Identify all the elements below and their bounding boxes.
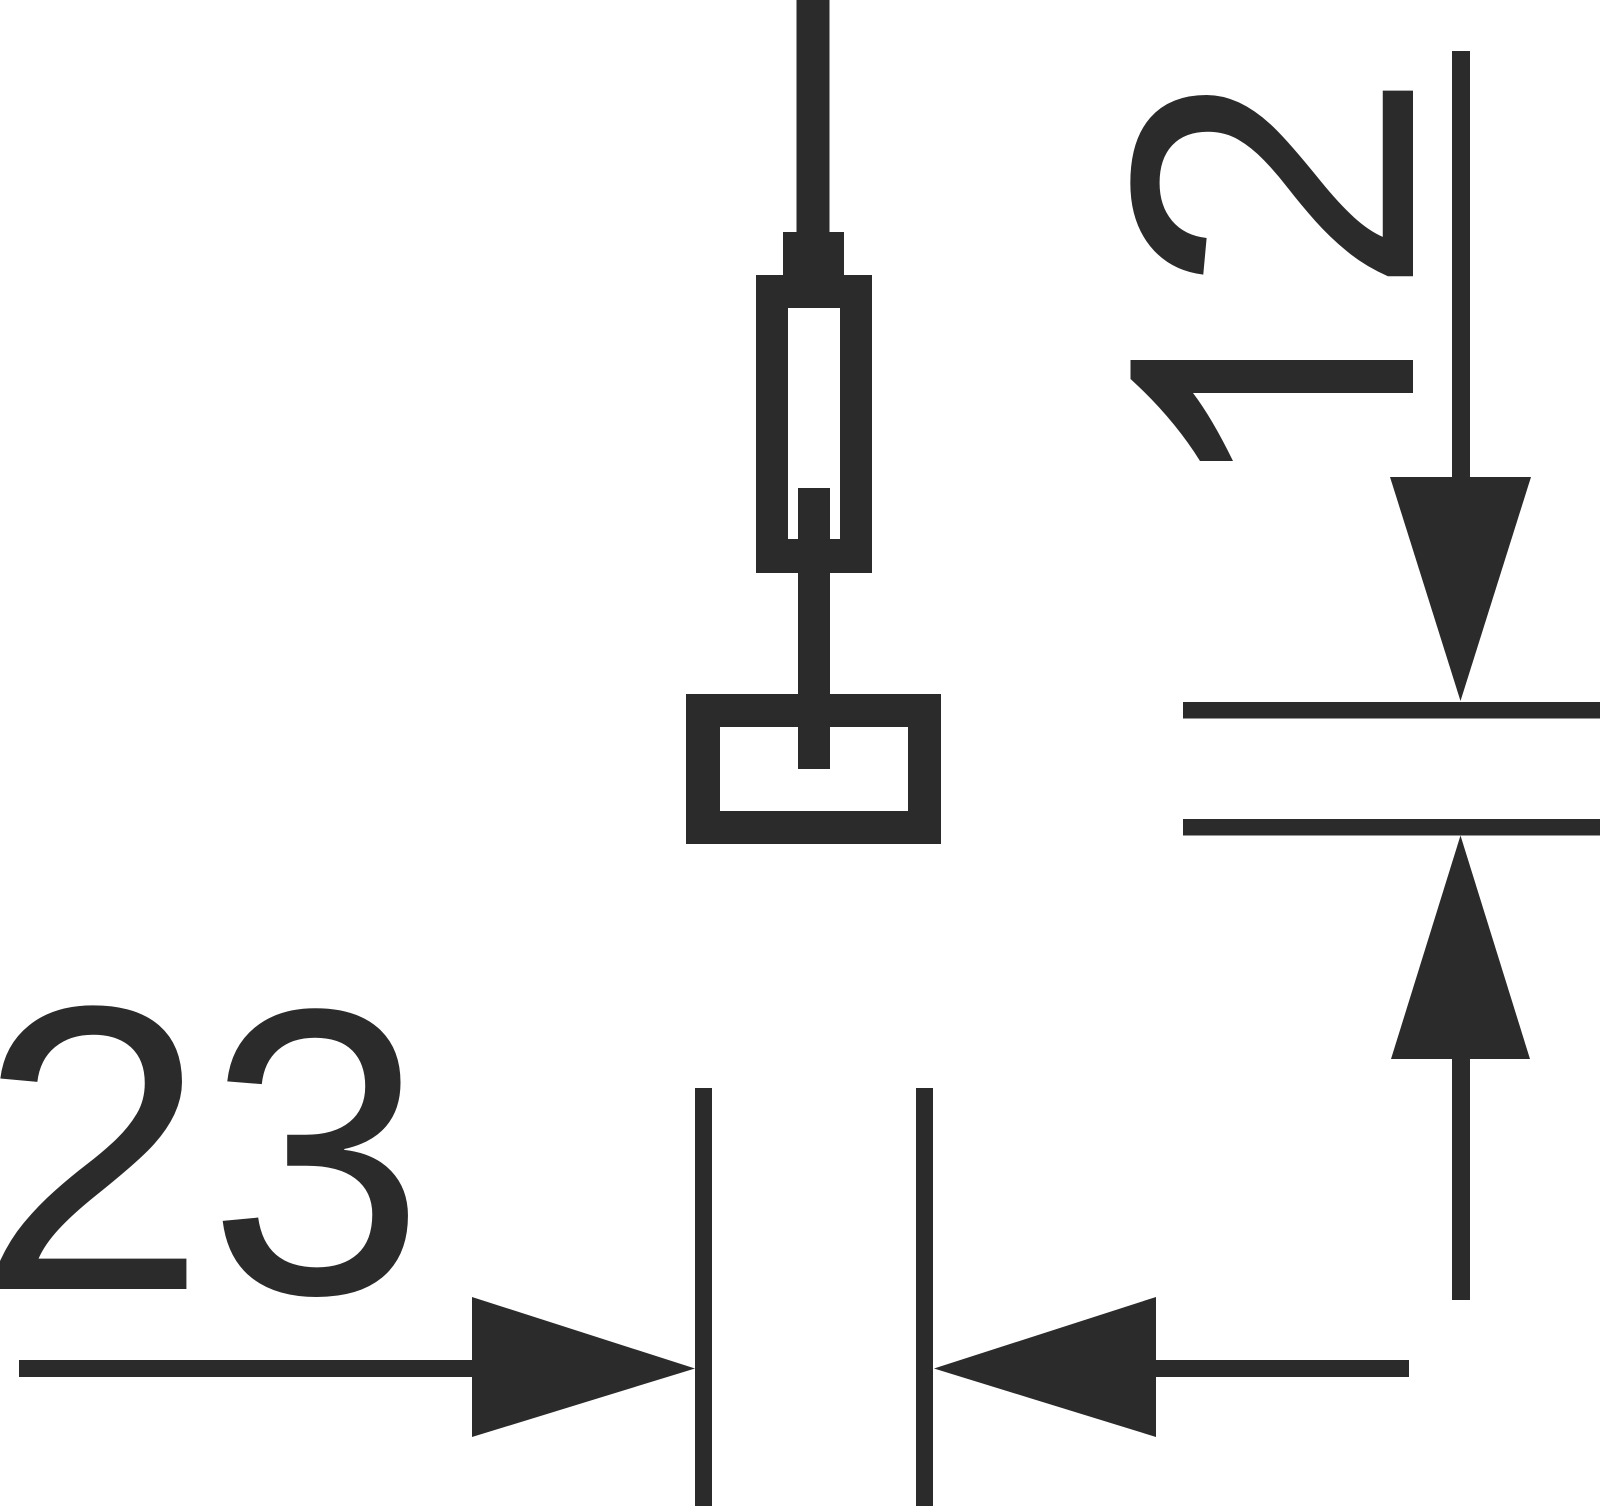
arrowhead left [934, 1297, 1156, 1437]
extension line top plate [1183, 702, 1600, 719]
dimension line 12 upper stem [1452, 51, 1470, 477]
base box inner cavity [720, 727, 908, 811]
lamp body inner cavity [788, 308, 840, 539]
dimension line 12 lower stem [1452, 1059, 1470, 1300]
wire top lead [797, 0, 830, 232]
extension line left [695, 1088, 712, 1506]
lamp body outer [756, 275, 872, 573]
extension line bottom plate [1183, 819, 1600, 836]
base box outer [686, 694, 941, 844]
dimension line 23 right stem [1156, 1360, 1409, 1377]
arrowhead up [1391, 836, 1530, 1060]
lamp cap [783, 232, 844, 276]
extension line right [916, 1088, 933, 1506]
dimension label 12 digit 1 [1131, 360, 1414, 461]
svg-text:2: 2 [1047, 70, 1500, 297]
svg-text:3: 3 [208, 923, 425, 1379]
dimension line 23 left stem [19, 1360, 472, 1377]
arrowhead down [1390, 477, 1531, 701]
svg-text:2: 2 [0, 922, 207, 1376]
electrode pin and bottom stem [798, 488, 830, 769]
stem inside base box [798, 694, 830, 769]
arrowhead right [472, 1297, 695, 1437]
